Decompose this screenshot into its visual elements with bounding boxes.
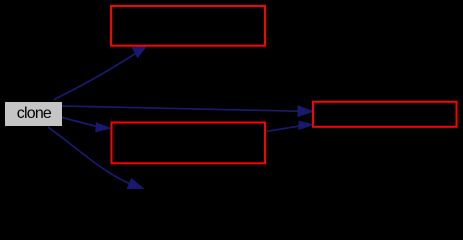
arrowhead edge clone->top <box>132 46 147 58</box>
node middle box <box>112 123 266 164</box>
arrowhead edge middle->right <box>299 121 313 129</box>
wire edge clone->middle <box>62 118 97 127</box>
arrowhead edge clone->middle <box>96 123 111 132</box>
wire edge clone->right <box>62 106 298 111</box>
wire edge middle->right <box>266 126 300 132</box>
wire edge clone->bottom (curved) <box>48 127 130 184</box>
node right box <box>313 102 457 127</box>
arrowhead edge clone->bottom <box>127 179 143 189</box>
svg-text:clone: clone <box>17 105 52 122</box>
node clone (current node, gray) <box>5 102 62 126</box>
wire edge clone->top <box>54 53 137 100</box>
arrowhead edge clone->right <box>298 106 313 117</box>
node top box <box>111 6 265 46</box>
